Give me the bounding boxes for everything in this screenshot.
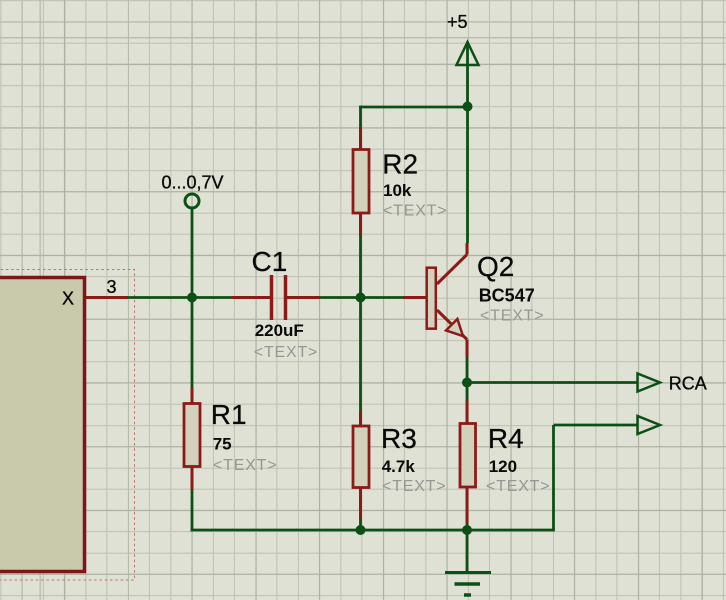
svg-text:R1: R1 [211, 399, 247, 430]
svg-text:<TEXT>: <TEXT> [480, 308, 544, 325]
svg-text:R4: R4 [488, 423, 524, 454]
svg-text:BC547: BC547 [479, 286, 535, 306]
svg-text:0...0,7V: 0...0,7V [162, 173, 224, 193]
svg-text:<TEXT>: <TEXT> [383, 203, 447, 220]
svg-text:C1: C1 [252, 246, 288, 277]
svg-text:<TEXT>: <TEXT> [486, 478, 550, 495]
svg-text:220uF: 220uF [255, 321, 304, 340]
svg-text:<TEXT>: <TEXT> [254, 344, 318, 361]
svg-text:3: 3 [107, 277, 117, 297]
svg-text:4.7k: 4.7k [382, 457, 416, 476]
svg-text:10k: 10k [383, 181, 412, 200]
svg-text:R3: R3 [381, 423, 417, 454]
svg-text:Q2: Q2 [477, 251, 514, 282]
svg-text:X: X [62, 288, 74, 308]
svg-text:75: 75 [213, 435, 232, 454]
svg-text:<TEXT>: <TEXT> [213, 457, 277, 474]
svg-text:<TEXT>: <TEXT> [382, 478, 446, 495]
svg-text:120: 120 [489, 457, 517, 476]
svg-text:+5: +5 [447, 12, 468, 32]
svg-text:R2: R2 [382, 149, 418, 180]
svg-text:RCA: RCA [669, 373, 707, 393]
